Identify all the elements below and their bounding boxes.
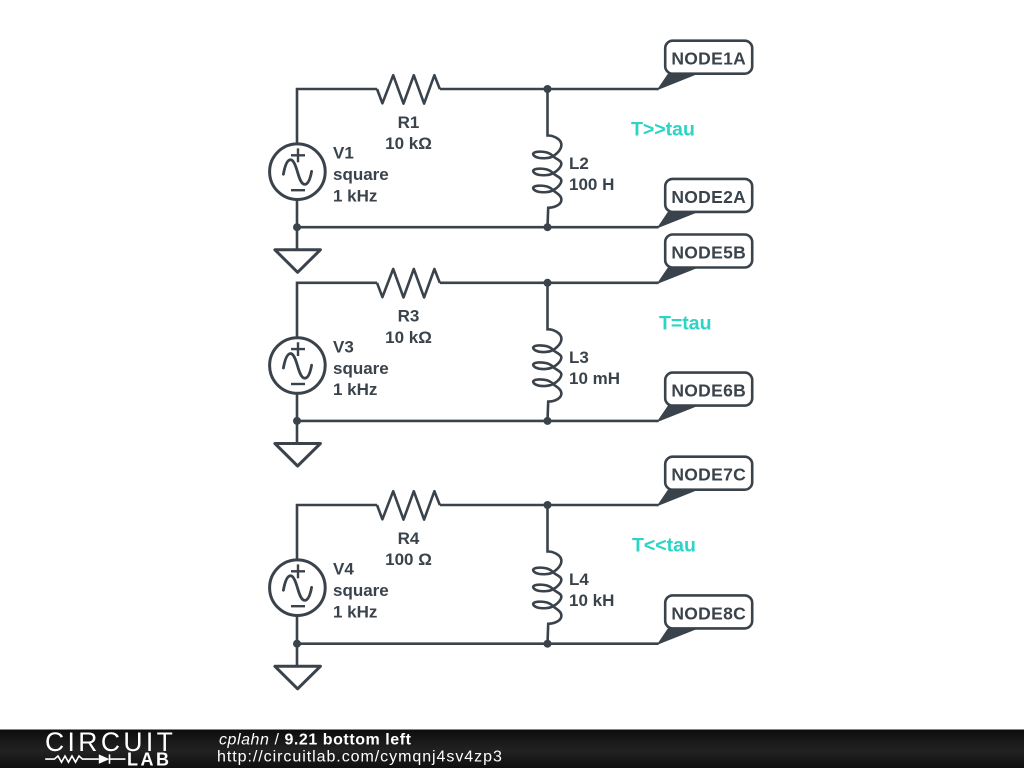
- junction: ground tee: [293, 417, 301, 425]
- inductor L2: [533, 89, 561, 227]
- svg-text:1 kHz: 1 kHz: [333, 602, 377, 621]
- ground: [275, 644, 321, 689]
- node flag NODE7C: [658, 457, 752, 506]
- svg-text:NODE8C: NODE8C: [671, 603, 746, 623]
- junction: top node: [544, 279, 552, 287]
- voltage source V3: [270, 338, 326, 394]
- wire: resistor to top junction and on to node tail: [440, 504, 659, 507]
- wire: top-left from source to resistor: [297, 505, 377, 560]
- svg-text:NODE5B: NODE5B: [671, 242, 746, 262]
- node flag NODE1A: [658, 41, 752, 90]
- junction: bottom node: [544, 223, 552, 231]
- resistor R3: [377, 269, 440, 297]
- inductor L3: [533, 283, 561, 421]
- svg-text:1 kHz: 1 kHz: [333, 186, 377, 205]
- resistor R1: [377, 75, 440, 103]
- svg-text:R1: R1: [398, 113, 420, 132]
- svg-text:V3: V3: [333, 337, 354, 356]
- svg-text:NODE1A: NODE1A: [671, 49, 746, 69]
- svg-text:square: square: [333, 165, 389, 184]
- wire: source bottom to bottom rail: [296, 616, 299, 644]
- ground: [275, 227, 321, 272]
- svg-text:NODE2A: NODE2A: [671, 187, 746, 207]
- label V3 square 1 kHz: [333, 337, 389, 399]
- svg-text:square: square: [333, 359, 389, 378]
- node flag NODE2A: [658, 179, 752, 228]
- svg-text:L3: L3: [569, 348, 589, 367]
- resistor R4: [377, 491, 440, 519]
- svg-text:100 H: 100 H: [569, 175, 614, 194]
- wire: bottom rail to node tail: [297, 642, 659, 645]
- svg-text:10 kΩ: 10 kΩ: [385, 134, 432, 153]
- node flag NODE6B: [658, 373, 752, 422]
- svg-text:V1: V1: [333, 144, 354, 163]
- label R4 value 100 Ω: [385, 529, 432, 569]
- wire: source bottom to bottom rail: [296, 394, 299, 421]
- svg-text:100 Ω: 100 Ω: [385, 550, 432, 569]
- junction: ground tee: [293, 223, 301, 231]
- node flag NODE8C: [658, 595, 752, 644]
- svg-text:LAB: LAB: [127, 750, 172, 768]
- svg-text:L4: L4: [569, 570, 589, 589]
- ground: [275, 421, 321, 466]
- svg-text:NODE7C: NODE7C: [671, 465, 746, 485]
- svg-text:cplahn / 9.21 bottom left: cplahn / 9.21 bottom left: [219, 731, 412, 748]
- junction: bottom node: [544, 640, 552, 648]
- svg-text:10 mH: 10 mH: [569, 369, 620, 388]
- node flag NODE5B: [658, 235, 752, 284]
- junction: bottom node: [544, 417, 552, 425]
- voltage source V1: [270, 144, 326, 200]
- wire: resistor to top junction and on to node tail: [440, 281, 659, 284]
- svg-text:R3: R3: [398, 307, 420, 326]
- svg-text:T=tau: T=tau: [659, 312, 712, 334]
- svg-text:square: square: [333, 581, 389, 600]
- junction: top node: [544, 85, 552, 93]
- label L4 value 10 kH: [569, 570, 614, 610]
- svg-text:http://circuitlab.com/cymqnj4s: http://circuitlab.com/cymqnj4sv4zp3: [217, 749, 503, 766]
- label L3 value 10 mH: [569, 348, 620, 388]
- inductor L4: [533, 505, 561, 644]
- svg-text:L2: L2: [569, 154, 589, 173]
- svg-text:1 kHz: 1 kHz: [333, 380, 377, 399]
- wire: top-left from source to resistor: [297, 283, 377, 338]
- svg-text:NODE6B: NODE6B: [671, 381, 746, 401]
- svg-text:10 kH: 10 kH: [569, 591, 614, 610]
- label L2 value 100 H: [569, 154, 614, 194]
- voltage source V4: [270, 560, 326, 616]
- label R3 value 10 kΩ: [385, 307, 432, 347]
- label V4 square 1 kHz: [333, 560, 389, 622]
- svg-text:10 kΩ: 10 kΩ: [385, 328, 432, 347]
- wire: bottom rail to node tail: [297, 226, 659, 229]
- svg-text:T<<tau: T<<tau: [632, 535, 696, 557]
- label R1 value 10 kΩ: [385, 113, 432, 153]
- wire: top-left from source to resistor: [297, 89, 377, 144]
- svg-text:V4: V4: [333, 560, 354, 579]
- junction: ground tee: [293, 640, 301, 648]
- label V1 square 1 kHz: [333, 144, 389, 206]
- wire: source bottom to bottom rail: [296, 200, 299, 228]
- wire: bottom rail to node tail: [297, 420, 659, 423]
- svg-text:T>>tau: T>>tau: [631, 119, 695, 141]
- footer bar: [0, 730, 1024, 768]
- junction: top node: [544, 501, 552, 509]
- wire: resistor to top junction and on to node tail: [440, 88, 659, 91]
- svg-text:R4: R4: [398, 529, 420, 548]
- CircuitLab logo: [45, 727, 176, 768]
- logo doodle: resistor + diode: [45, 756, 99, 762]
